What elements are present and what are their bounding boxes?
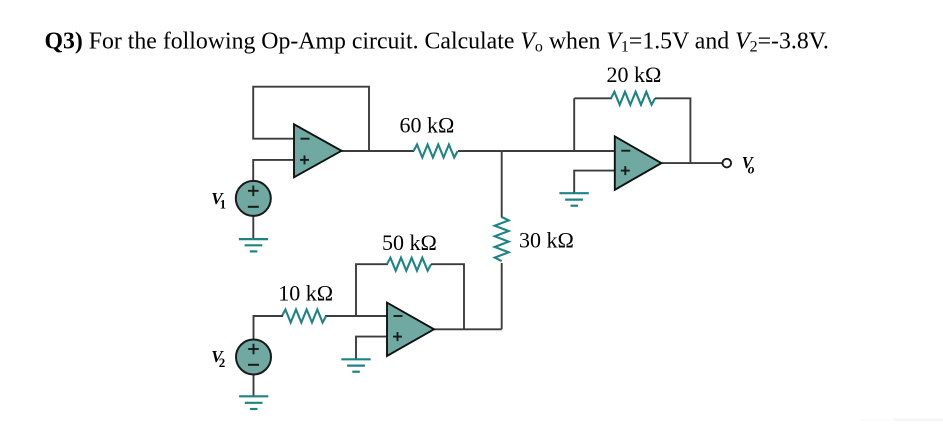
op-amp U3 [615,136,662,189]
ground U3 [559,193,588,206]
svg-text:60 kΩ: 60 kΩ [400,113,455,138]
title text [45,29,829,56]
svg-text:1: 1 [220,197,227,212]
wire U3 output to terminal [660,162,722,164]
resistor R2 20k [607,62,662,105]
wire V1 to ground [252,216,254,239]
wire V2 to R 10k [254,316,284,340]
wire U2 feedback left vertical and top left [356,264,388,316]
svg-text:Q3) For the following Op-Amp c: Q3) For the following Op-Amp circuit. Ca… [45,29,829,56]
wire U2 output [433,328,502,330]
svg-text:2: 2 [219,355,226,370]
op-amp U2 [387,303,434,356]
resistor R1 60k [400,113,458,158]
wire U1 feedback loop [253,87,369,151]
svg-text:10 kΩ: 10 kΩ [278,281,333,306]
svg-text:20 kΩ: 20 kΩ [607,62,662,87]
voltage source V2 [236,340,271,375]
wire U1 noninverting input from V1 [253,160,295,181]
wire R 10k to U2 inverting input [325,315,388,317]
ground V2 [239,396,268,409]
resistor R3 30k vertical [495,217,574,261]
wire U3 noninverting input to ground [574,171,616,193]
wire U3 feedback left vertical [573,98,575,151]
resistor R4 50k [382,230,437,271]
wire U2 feedback top right and right vertical [431,264,464,329]
svg-text:30 kΩ: 30 kΩ [519,227,574,252]
ground V1 [239,239,268,251]
label V2 [211,347,225,370]
wire R 30k down to U2 output rail [501,263,503,329]
label Vo [742,153,755,176]
wire U1 output to R 60k [341,150,415,152]
voltage source V1 [236,181,271,216]
wire R 60k to node A [458,150,502,152]
label V1 [211,189,226,212]
node A wire to U3 inverting input [502,150,616,152]
output terminal [723,159,732,168]
ground U2 [341,359,370,371]
wire U2 noninverting input to ground [356,337,388,359]
faint bottom-right smear artifact [860,419,943,422]
op-amp U1 [294,124,342,177]
wire V2 to ground [253,375,255,396]
svg-text:50 kΩ: 50 kΩ [382,230,437,255]
svg-text:o: o [748,161,755,176]
wire node A down to R 30k [501,151,503,218]
resistor R5 10k [278,281,333,323]
wire U3 feedback top right and right vertical [655,98,690,163]
wire U3 feedback top left [574,97,612,99]
